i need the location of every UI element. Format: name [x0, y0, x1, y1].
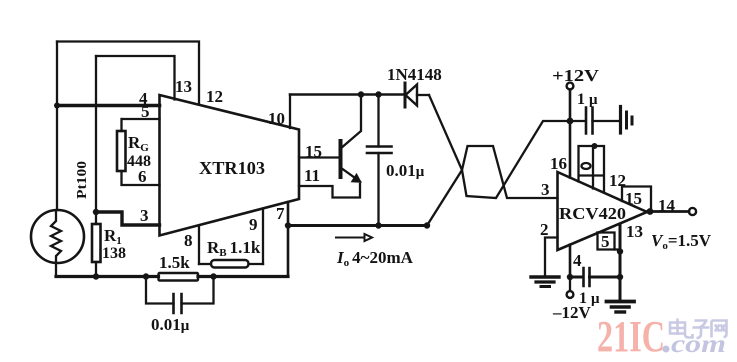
svg-text:15: 15 [625, 189, 642, 208]
ground ac sideways bar2 [625, 112, 628, 128]
wire pin 5 left edge [598, 233, 615, 250]
wire pin 3 [96, 212, 160, 225]
resistor R1 lead bottom [95, 262, 97, 277]
resistor RB lead left [199, 263, 211, 265]
wire pin 4 stub [569, 245, 572, 277]
capacitor C2 top lead [377, 95, 379, 147]
diode D1 triangle [406, 85, 418, 106]
wire pin 15 base [299, 156, 339, 158]
resistor R1 lead top [95, 212, 97, 224]
resistor R1 body [92, 224, 101, 262]
terminal +12V circle [567, 83, 574, 90]
ground pin2 bar2 [536, 280, 554, 283]
resistor RB 1.1k body [211, 260, 249, 268]
resistor 1.5k body [159, 273, 199, 281]
wire outer loop top (pin12 feedback) [57, 42, 199, 105]
wire output pin 14 [647, 210, 689, 213]
diode D1 1N4148 cathode bar [404, 83, 407, 107]
capacitor C2 bottom lead [377, 153, 379, 226]
sensor Pt100 zigzag element [51, 211, 61, 263]
svg-text:8: 8 [184, 231, 193, 250]
sensor Pt100 circle [31, 210, 84, 263]
svg-text:Vo=1.5V: Vo=1.5V [651, 231, 712, 252]
wire pin 5 loop [598, 233, 621, 250]
resistor R_G lead top [120, 119, 122, 131]
capacitor C2 plates [367, 147, 392, 154]
wire bottom right rail left part [570, 276, 583, 279]
svg-text:0.01μ: 0.01μ [386, 161, 425, 180]
capacitor 1u bottom plates [584, 268, 590, 286]
wire pin 13 vertical [619, 224, 622, 300]
svg-text:1N4148: 1N4148 [387, 65, 442, 84]
wire inner loop left vertical [95, 56, 97, 212]
svg-text:13: 13 [626, 222, 643, 241]
node junction twist bottom start [424, 222, 430, 228]
capacitor 0.01u plates [174, 294, 182, 313]
wire twisted pair B [427, 146, 558, 226]
node junction pin7 [285, 222, 291, 228]
watermark dot [663, 346, 670, 353]
ground main bar3 [616, 310, 625, 313]
svg-text:RCV420: RCV420 [559, 204, 626, 223]
wire Pt100 bottom [55, 263, 57, 277]
wire current loop 4-20mA [288, 224, 427, 227]
svg-text:RB1.1k: RB1.1k [207, 238, 261, 259]
node junction collector [358, 91, 364, 97]
svg-text:4: 4 [573, 251, 582, 270]
svg-text:12: 12 [206, 87, 223, 106]
ground ac sideways bar3 [631, 117, 634, 124]
svg-text:XTR103: XTR103 [199, 158, 265, 178]
node junction left rail pin4 [54, 103, 60, 109]
terminal output circle [689, 208, 696, 215]
transistor Q1 base bar [339, 141, 343, 177]
ground ac sideways [619, 107, 622, 134]
svg-text:com: com [671, 331, 726, 358]
resistor RB lead right [249, 263, 264, 265]
wire pin 5 [122, 118, 160, 120]
resistor network ellipse [582, 163, 591, 169]
capacitor 0.01u right lead [182, 277, 214, 304]
ground pin2 bar1 [531, 275, 559, 278]
wire pin 11 jog to emitter [299, 184, 360, 198]
svg-text:11: 11 [304, 166, 320, 185]
node junction minus12 [567, 274, 573, 280]
wire outer loop left vertical [56, 42, 58, 211]
resistor R_G body [117, 131, 126, 171]
wire pin 2 to ground [545, 238, 558, 277]
terminal -12V circle [567, 291, 574, 298]
svg-text:1.5k: 1.5k [159, 253, 190, 272]
ground main bar2 [612, 305, 630, 309]
wire pin 10 riser [289, 95, 291, 129]
svg-text:+12V: +12V [552, 66, 600, 85]
wire pin 15 loop [622, 187, 651, 212]
svg-text:5: 5 [601, 232, 610, 251]
capacitor 0.01u left lead [146, 277, 174, 304]
transistor Q1 collector [340, 95, 361, 150]
node junction +12V rail [567, 118, 574, 125]
node junction cap right [210, 273, 216, 279]
op-amp U1 XTR103 body [160, 95, 300, 236]
transistor Q1 emitter arrowhead [352, 175, 361, 183]
resistor network box above RCV [579, 146, 605, 193]
svg-text:3: 3 [140, 206, 149, 225]
svg-text:10: 10 [268, 109, 285, 128]
wire +12V stem [569, 90, 572, 178]
node junction pin13 b [617, 274, 623, 280]
transistor Q1 emitter [341, 168, 361, 182]
wire pin 7 vertical [287, 202, 290, 277]
svg-text:R1: R1 [104, 226, 122, 247]
svg-text:2: 2 [540, 220, 549, 239]
svg-text:Pt100: Pt100 [75, 161, 90, 199]
node junction R1 bottom [93, 273, 99, 279]
resistor R_G lead bottom and pin 6 wire [122, 171, 160, 185]
node junction pin13 a [617, 248, 623, 254]
wire bottom rail mid [198, 275, 288, 278]
svg-text:16: 16 [550, 154, 567, 173]
svg-text:3: 3 [541, 180, 550, 199]
svg-text:7: 7 [276, 204, 285, 223]
node junction cap2 bottom [375, 222, 381, 228]
wire inner loop (pin13 feedback) [96, 56, 175, 100]
node junction output [647, 208, 654, 215]
wire bottom right rail right part [590, 276, 621, 279]
wire pin 8 [198, 226, 200, 265]
svg-text:0.01μ: 0.01μ [151, 315, 190, 334]
wire bottom rail left [56, 275, 159, 278]
arrow current direction [336, 234, 372, 241]
svg-text:–12V: –12V [552, 303, 592, 322]
wire pin 4 [57, 104, 160, 108]
ground main bar1 [607, 300, 635, 304]
node junction R1 top [93, 209, 99, 215]
svg-text:448: 448 [127, 153, 151, 170]
svg-text:138: 138 [102, 245, 126, 262]
ground pin2 bar3 [541, 285, 550, 288]
wire pin 9 [262, 209, 264, 264]
wire cap to ac ground [593, 120, 620, 122]
capacitor 1u top plates [586, 108, 593, 134]
diode D1 anode wire [417, 94, 429, 96]
terminal -12V stem [569, 277, 571, 291]
svg-text:21IC: 21IC [597, 312, 665, 361]
wire top rail [290, 93, 404, 96]
node junction cap left [143, 273, 149, 279]
svg-text:13: 13 [175, 77, 192, 96]
svg-text:1 μ: 1 μ [577, 91, 598, 108]
watermark chinese dianziwang [670, 319, 727, 339]
svg-text:RG: RG [128, 133, 149, 154]
svg-text:9: 9 [249, 215, 258, 234]
wire twisted pair A [429, 95, 585, 198]
op-amp U2 RCV420 body [558, 172, 648, 250]
svg-text:Io4~20mA: Io4~20mA [336, 248, 414, 269]
node junction network top [592, 143, 598, 149]
node junction cap2 top [375, 91, 381, 97]
